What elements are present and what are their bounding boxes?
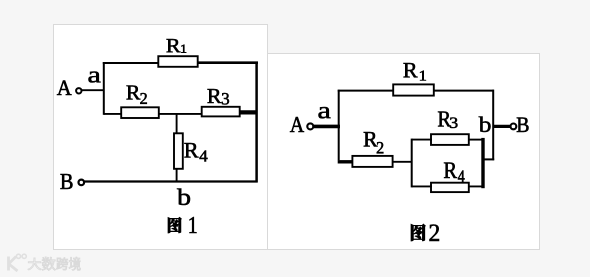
label R4 letter fig2: [444, 163, 457, 179]
label R3 letter: [208, 89, 222, 103]
terminal A circle fig2: [307, 123, 313, 129]
wire R2 to parallel block fig2: [392, 161, 412, 163]
label R1 letter fig2: [404, 63, 418, 77]
wire parallel block right vertical fig2 thick: [481, 138, 484, 188]
label R1 subscript 1 fig2: [420, 71, 426, 81]
terminal B label fig2: [517, 118, 529, 133]
terminal B circle fig2: [511, 124, 517, 130]
wire R4 to block right fig2: [468, 185, 485, 187]
wire jog to parallel block fig2: [483, 158, 494, 160]
label R4 letter: [184, 143, 198, 158]
terminal B circle: [79, 180, 85, 186]
label R2 subscript 2 fig2: [377, 142, 384, 153]
wire right outer vertical fig2: [492, 90, 494, 161]
watermark char shu: [42, 257, 56, 271]
wire left vertical to R2 fig2 thick: [338, 160, 353, 163]
label R3 letter fig2: [438, 112, 451, 127]
wire A to node a fig2 thick: [314, 125, 341, 129]
resistor R4: [174, 133, 183, 169]
resistor R3: [202, 107, 240, 117]
node a label: [89, 72, 101, 83]
watermark logo mark: [9, 254, 27, 271]
caption figure-2 digit 2: [430, 225, 440, 242]
terminal A circle: [76, 88, 81, 93]
wire A to node a: [82, 89, 104, 91]
wire parallel block left vertical fig2: [411, 139, 413, 188]
wire right vertical: [255, 62, 258, 183]
wire block to R4 fig2: [412, 185, 432, 187]
resistor R3 fig2: [431, 134, 469, 145]
wire bottom rail: [85, 180, 258, 182]
label R2 subscript 2: [140, 93, 147, 104]
wire R1 to top right corner fig2: [433, 90, 494, 92]
terminal A label fig2: [290, 117, 304, 132]
label R1 letter: [167, 39, 181, 52]
caption figure-2 glyph tu: [411, 224, 426, 241]
wire junction node down to R4: [176, 114, 178, 134]
wire R3 to block right fig2: [468, 139, 484, 141]
watermark char kua: [57, 258, 69, 271]
wire node b to B circle fig2 thick: [494, 125, 511, 128]
terminal A label: [57, 81, 72, 96]
caption figure-1 glyph tu: [168, 217, 182, 233]
watermark char jing: [69, 257, 81, 271]
label R3 subscript 3 fig2: [450, 118, 458, 129]
wire top rail to R1: [103, 62, 159, 64]
resistor R2: [121, 107, 159, 118]
resistor R1: [158, 56, 197, 67]
wire left vertical node a: [103, 62, 105, 115]
label R4 subscript 4: [200, 151, 208, 162]
node a label fig2: [319, 107, 331, 118]
wire R3 to right vertical thick: [240, 110, 257, 114]
label R2 letter: [127, 86, 141, 100]
node b label fig2: [479, 117, 491, 133]
watermark char da: [28, 258, 41, 270]
wire left vertical fig2: [338, 90, 340, 161]
white panel figure 1: [53, 24, 268, 250]
resistor R2 fig2: [352, 156, 392, 167]
wire block to R3 fig2: [412, 139, 432, 141]
wire R2 to R3: [159, 113, 203, 115]
wire R4 to bottom rail: [176, 169, 178, 182]
resistor R4 fig2: [431, 183, 469, 192]
label R3 subscript 3: [222, 93, 229, 105]
terminal B label: [61, 174, 73, 189]
resistor R1 fig2: [393, 84, 434, 95]
wire node a to R2: [104, 113, 122, 115]
wire R1 to top right corner: [198, 61, 259, 64]
label R1 subscript 1: [181, 45, 186, 53]
label R4 subscript 4 fig2: [458, 171, 465, 183]
node b label: [177, 189, 190, 206]
caption figure-1 digit 1: [190, 217, 197, 233]
wire top rail to R1 fig2: [338, 90, 394, 92]
white panel figure 2: [267, 53, 540, 250]
label R2 letter fig2: [364, 132, 378, 147]
